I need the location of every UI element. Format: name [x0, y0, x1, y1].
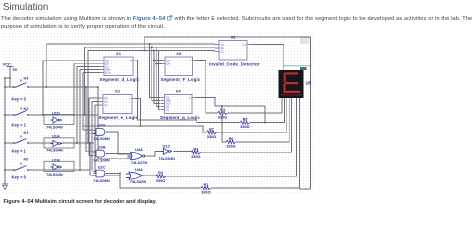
svg-text:X3: X3 [176, 51, 182, 56]
svg-text:330Ω: 330Ω [218, 116, 227, 120]
svg-text:74LS32N: 74LS32N [130, 179, 147, 184]
svg-text:Qb: Qb [104, 100, 108, 104]
svg-text:Segment_F_Logic: Segment_F_Logic [161, 77, 201, 82]
svg-text:Key = 3: Key = 3 [12, 96, 27, 101]
svg-text:X2: X2 [115, 89, 121, 94]
svg-text:X4: X4 [176, 89, 182, 94]
svg-text:330Ω: 330Ω [156, 179, 165, 183]
svg-text:U2C: U2C [98, 165, 106, 170]
svg-text:Qb: Qb [166, 62, 170, 66]
svg-text:U2B: U2B [98, 145, 106, 150]
svg-text:R1: R1 [204, 183, 209, 187]
svg-text:U2A: U2A [98, 123, 106, 128]
svg-text:R2: R2 [158, 171, 163, 175]
svg-text:X5: X5 [231, 35, 237, 40]
svg-text:Invalid_Code_Detector: Invalid_Code_Detector [209, 61, 260, 66]
svg-text:Key = 1: Key = 1 [12, 148, 27, 153]
svg-text:R5: R5 [243, 118, 248, 122]
svg-text:U3A: U3A [135, 147, 143, 152]
svg-text:Segment_d_Logic: Segment_d_Logic [100, 77, 140, 82]
svg-text:U1C: U1C [163, 143, 171, 148]
svg-text:U1B: U1B [52, 157, 60, 162]
svg-text:U1A: U1A [52, 134, 60, 139]
svg-text:330Ω: 330Ω [207, 135, 216, 139]
svg-text:R3: R3 [193, 147, 198, 151]
svg-text:X1: X1 [116, 51, 122, 56]
svg-text:330Ω: 330Ω [240, 125, 249, 129]
svg-text:330Ω: 330Ω [191, 155, 200, 159]
svg-text:74LS08N: 74LS08N [93, 136, 110, 141]
svg-text:74LS04N: 74LS04N [158, 156, 175, 161]
svg-text:R7: R7 [209, 127, 214, 131]
svg-text:Qa: Qa [104, 96, 108, 100]
svg-text:74LS04N: 74LS04N [46, 124, 63, 129]
svg-text:Segment_e_Logic: Segment_e_Logic [99, 115, 139, 120]
svg-text:DCb: DCb [105, 71, 111, 75]
svg-text:U1D: U1D [52, 110, 60, 115]
svg-text:Ca: Ca [242, 43, 246, 47]
svg-text:Qa: Qa [220, 43, 224, 47]
svg-text:K0: K0 [24, 157, 29, 162]
svg-text:K3: K3 [24, 76, 30, 81]
svg-text:U4A: U4A [135, 167, 143, 172]
svg-text:K1: K1 [24, 130, 30, 135]
svg-text:Key = 2: Key = 2 [12, 122, 27, 127]
svg-text:330Ω: 330Ω [201, 191, 210, 195]
svg-text:5V: 5V [13, 67, 18, 72]
svg-text:Key = 0: Key = 0 [12, 174, 27, 179]
svg-text:R6: R6 [229, 137, 234, 141]
svg-text:74LS04N: 74LS04N [46, 148, 63, 153]
svg-text:VCC: VCC [3, 61, 12, 66]
svg-text:74LS04N: 74LS04N [46, 172, 63, 177]
svg-text:Segment_g_Logic: Segment_g_Logic [160, 115, 200, 120]
svg-text:U5: U5 [306, 81, 312, 86]
svg-text:K2: K2 [24, 106, 30, 111]
svg-text:74LS08N: 74LS08N [93, 178, 110, 183]
svg-text:Qb: Qb [220, 46, 224, 50]
svg-text:330Ω: 330Ω [226, 145, 235, 149]
svg-text:74LS08N: 74LS08N [93, 158, 110, 163]
svg-text:74LS27N: 74LS27N [131, 160, 148, 165]
